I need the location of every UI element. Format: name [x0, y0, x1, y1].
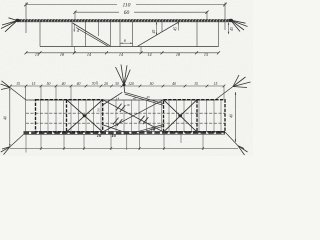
right anchor dashed rectangle — [164, 100, 226, 132]
bottom line of elevation box — [40, 46, 219, 48]
svg-text:15: 15 — [35, 52, 39, 57]
svg-text:45: 45 — [174, 27, 178, 31]
extension line left of 60 — [74, 11, 76, 19]
plan top edge — [26, 99, 215, 101]
spacer strut marks pair 1 on long wire — [116, 104, 125, 112]
bottom-left fan — [1, 147, 10, 155]
svg-text:110: 110 — [123, 3, 131, 9]
svg-text:40: 40 — [133, 96, 137, 100]
svg-text:120: 120 — [128, 82, 134, 86]
left anchor dashed rectangle — [36, 100, 103, 132]
right top taper to hub — [215, 87, 233, 101]
svg-text:15: 15 — [214, 82, 218, 86]
svg-text:1б: 1б — [151, 127, 156, 132]
left frayed-wire fan — [1, 18, 17, 32]
center upward frayed-wire fan — [116, 65, 131, 93]
rotated dimension 45 (at right diagonal top) — [177, 22, 179, 31]
right drape diagonal — [138, 22, 180, 47]
svg-text:45: 45 — [230, 27, 234, 31]
left top taper to hub — [10, 88, 26, 101]
slash ticks on bottom dimension line — [40, 147, 204, 149]
vertical extension lines from bar to bottom line — [40, 22, 219, 47]
svg-text:16: 16 — [126, 103, 130, 107]
svg-text:40: 40 — [229, 114, 233, 118]
extension above right rect corner — [223, 86, 225, 99]
svg-text:15: 15 — [194, 82, 198, 86]
svg-text:40: 40 — [172, 82, 176, 86]
svg-text:1б: 1б — [111, 133, 116, 138]
svg-text:15: 15 — [32, 82, 36, 86]
plan dimension labels — [16, 82, 217, 86]
upper wire rising to apex — [103, 92, 123, 105]
grid verticals — [41, 100, 222, 131]
spacer strut marks pair 2 — [139, 116, 148, 124]
right end knob — [229, 19, 233, 22]
long crossing wires between anchor rects — [103, 100, 164, 132]
right bottom taper to hub — [225, 132, 238, 146]
top-left fan — [1, 81, 11, 90]
bottom dimension line between hubs — [10, 147, 238, 149]
rotated dimension 45 at right end — [228, 23, 230, 35]
svg-text:20: 20 — [104, 82, 108, 86]
dark dashed band of bottom strip — [24, 132, 226, 134]
extension line left of 110 — [25, 3, 27, 34]
svg-text:40: 40 — [3, 116, 7, 120]
svg-text:50: 50 — [150, 82, 154, 86]
bottom-right fan — [238, 146, 248, 155]
svg-text:15: 15 — [16, 82, 20, 86]
dimension line 60 — [73, 11, 208, 14]
slash ticks on plan dimension row — [9, 85, 225, 88]
rotated dimension 45 (left of right diagonal) — [156, 22, 158, 35]
dimension line 110 (top) — [24, 3, 227, 7]
left X-brace — [67, 100, 103, 132]
right frayed-wire fan — [232, 20, 248, 31]
inner horizontal wire rows (dashed) — [26, 113, 225, 123]
lower wire rising double to right rect — [133, 125, 164, 135]
left edge extension vertical — [25, 86, 27, 134]
extension verticals below band — [41, 134, 203, 150]
short extension verticals to dim row — [74, 47, 141, 53]
right X knob — [178, 114, 182, 117]
svg-text:30: 30 — [115, 82, 119, 86]
extension line right of 60 — [206, 11, 208, 20]
svg-text:40: 40 — [77, 82, 81, 86]
small dimension 4 near left bend — [74, 24, 75, 32]
extension below bottom-left corner — [25, 134, 27, 152]
svg-text:20: 20 — [95, 81, 99, 85]
right X-brace — [164, 100, 198, 132]
left vertical dimension line with arrows — [9, 88, 11, 147]
left drape diagonal — [73, 23, 110, 46]
dimension b (б) in middle — [120, 43, 133, 44]
slash ticks — [25, 51, 221, 54]
top-right fan — [233, 75, 251, 88]
spacer strut marks pair 3 — [113, 118, 122, 126]
svg-text:14: 14 — [119, 52, 123, 57]
svg-text:1б: 1б — [97, 133, 102, 138]
center fan base knob — [122, 84, 125, 87]
lower wire dipping to nadir — [103, 125, 132, 135]
svg-text:40: 40 — [62, 82, 66, 86]
svg-text:45: 45 — [146, 95, 150, 99]
left bottom taper to hub — [10, 134, 24, 146]
svg-text:50: 50 — [97, 108, 101, 112]
segment labels — [35, 52, 208, 57]
plan bottom edge lower line — [24, 133, 226, 135]
extension line right of 110 — [224, 3, 226, 31]
svg-text:15: 15 — [204, 52, 208, 57]
left X knob — [83, 114, 87, 117]
svg-text:50: 50 — [47, 82, 51, 86]
svg-text:45: 45 — [152, 30, 156, 34]
svg-text:14: 14 — [87, 52, 91, 57]
right vertical dimension line with arrows — [235, 92, 237, 142]
extension verticals from dim row to top edge — [41, 86, 71, 100]
svg-text:60: 60 — [124, 10, 130, 16]
bottom dimension row of elevation — [26, 52, 219, 54]
svg-text:14: 14 — [147, 52, 151, 57]
plan dimension row line — [10, 85, 224, 87]
main wire bundle bar (hatched dark band) — [17, 19, 233, 23]
svg-text:14: 14 — [116, 97, 120, 101]
plan bottom edge upper line — [24, 130, 226, 132]
upper wire descending double to right rect — [124, 92, 163, 105]
left end knob — [15, 19, 19, 22]
